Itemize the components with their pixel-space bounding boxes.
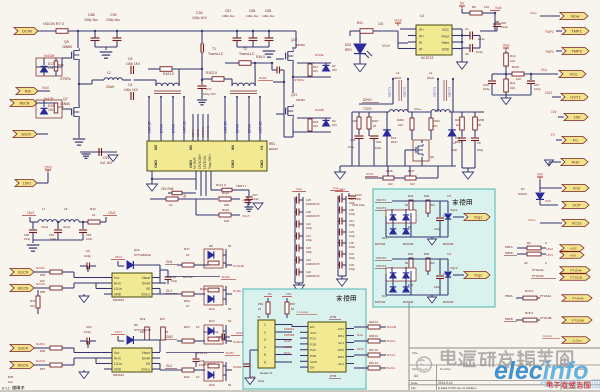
- svg-text:5: 5: [264, 353, 266, 357]
- svg-text:DCIN: DCIN: [22, 29, 32, 34]
- svg-text:10: 10: [196, 375, 200, 379]
- title block border top: [409, 347, 600, 349]
- wire right aux: [452, 111, 484, 113]
- svg-text:D2VO: D2VO: [363, 98, 372, 102]
- svg-text:5n2M: 5n2M: [259, 76, 267, 80]
- wire U1 right: [461, 29, 463, 58]
- svg-text:VOCT4: VOCT4: [376, 264, 386, 268]
- tag Vmr right: [562, 185, 589, 192]
- wire drv1 out: [159, 278, 161, 284]
- svg-text:VOoT: VOoT: [242, 214, 250, 218]
- svg-text:VQc2: VQc2: [450, 266, 458, 270]
- power arrow: [108, 155, 118, 162]
- wire aux rail: [351, 112, 353, 117]
- diode package DQ2: [386, 268, 416, 281]
- svg-text:VOCT2: VOCT2: [376, 256, 386, 260]
- svg-text:VCC: VCC: [442, 28, 450, 32]
- svg-text:R37: R37: [160, 317, 166, 321]
- svg-text:D20: D20: [134, 248, 140, 252]
- svg-text:D24: D24: [209, 383, 215, 387]
- svg-text:TMP3: TMP3: [571, 49, 582, 54]
- svg-text:R50: R50: [184, 299, 190, 303]
- svg-text:VOCT1: VOCT1: [376, 198, 386, 202]
- svg-text:100p: 100p: [349, 245, 355, 249]
- svg-text:66: 66: [405, 203, 409, 207]
- transformer L4 windings: [437, 78, 439, 103]
- svg-text:Header 6: Header 6: [260, 371, 273, 375]
- ground rectifier: [428, 297, 437, 303]
- svg-text:C30: C30: [349, 208, 354, 212]
- svg-text:C85: C85: [265, 9, 271, 13]
- svg-text:100p 1KV: 100p 1KV: [192, 16, 208, 20]
- LED D34 RED: [359, 33, 361, 43]
- inductor coil L3 bottom: [389, 110, 408, 112]
- svg-text:C30: C30: [350, 138, 356, 142]
- svg-text:PH2: PH2: [572, 160, 581, 165]
- svg-text:RbCN: RbCN: [20, 102, 30, 106]
- svg-text:BAT546: BAT546: [375, 300, 386, 304]
- tag PT3G4A: [560, 267, 590, 274]
- svg-text:BAT546: BAT546: [403, 242, 414, 246]
- svg-text:R20: R20: [455, 118, 461, 122]
- svg-text:102: 102: [484, 5, 489, 9]
- power Vout mid: [503, 47, 509, 49]
- svg-text:20uH: 20uH: [394, 76, 401, 80]
- svg-text:R307: R307: [372, 119, 379, 123]
- svg-text:R2: R2: [527, 241, 531, 245]
- svg-text:5V: 5V: [268, 292, 272, 296]
- power 15V2: [45, 169, 51, 171]
- svg-text:102: 102: [388, 182, 393, 186]
- Elecinfo chinese red text: [547, 382, 552, 388]
- resistor R42 10: [182, 368, 194, 372]
- svg-text:C4: C4: [128, 83, 132, 87]
- svg-text:15V1: 15V1: [115, 330, 122, 334]
- svg-text:100: 100: [224, 219, 229, 223]
- svg-text:J1: J1: [257, 315, 261, 319]
- svg-text:PT3G4A: PT3G4A: [570, 269, 582, 273]
- svg-text:Sc1CN: Sc1CN: [18, 271, 29, 275]
- svg-text:18N50: 18N50: [296, 98, 305, 102]
- svg-text:DrvLo: DrvLo: [141, 293, 150, 297]
- tag Sc2CN: [10, 345, 34, 352]
- svg-text:5n1DN: 5n1DN: [36, 266, 45, 270]
- svg-text:VQc1: VQc1: [450, 208, 458, 212]
- svg-text:104p: 104p: [483, 87, 490, 91]
- svg-text:R40: R40: [424, 194, 430, 198]
- tag VCo: [559, 71, 586, 78]
- transistor Q6: [413, 140, 429, 161]
- svg-text:C94: C94: [86, 325, 92, 329]
- svg-text:5n2G4B: 5n2G4B: [233, 340, 244, 344]
- svg-text:C1: C1: [465, 27, 469, 31]
- capacitor C38: [427, 213, 429, 217]
- label VQc1: [447, 201, 449, 213]
- svg-text:U1: U1: [420, 14, 424, 18]
- svg-text:R102 0: R102 0: [206, 71, 217, 75]
- svg-text:102p: 102p: [434, 285, 441, 289]
- diode D8 package: [204, 249, 223, 268]
- svg-text:100p: 100p: [349, 201, 355, 205]
- wire switch node: [283, 82, 285, 137]
- tag Rsb: [16, 88, 38, 95]
- svg-text:C22: C22: [306, 270, 311, 274]
- svg-text:C88: C88: [88, 13, 95, 17]
- svg-text:5V: 5V: [460, 2, 465, 6]
- ground J1: [250, 349, 258, 351]
- svg-text:C34: C34: [196, 11, 203, 15]
- diode D4 15V: [323, 120, 330, 126]
- svg-text:R63: R63: [258, 302, 264, 306]
- svg-text:R309: R309: [397, 118, 404, 122]
- wire drv1 inputs: [73, 272, 75, 278]
- svg-text:2n2 1KV: 2n2 1KV: [100, 161, 113, 165]
- svg-text:66: 66: [405, 261, 409, 265]
- ground: [501, 98, 511, 105]
- svg-text:C53: C53: [250, 375, 256, 379]
- tag Sc1CN: [10, 269, 34, 276]
- svg-text:C33: C33: [349, 263, 354, 267]
- tag PH2: [545, 160, 554, 166]
- svg-text:LLCen: LLCen: [543, 334, 552, 338]
- svg-text:GL2: GL2: [338, 362, 344, 366]
- svg-text:C32: C32: [376, 140, 382, 144]
- svg-text:C12: C12: [306, 234, 311, 238]
- svg-text:Vlow: Vlow: [571, 14, 580, 19]
- wire: [480, 30, 497, 32]
- svg-text:102: 102: [410, 182, 415, 186]
- capacitor C80 104p: [32, 222, 34, 229]
- svg-text:10: 10: [186, 304, 190, 308]
- svg-text:T2VO: T2VO: [363, 107, 372, 111]
- svg-text:P2A: P2A: [310, 348, 317, 352]
- tag Rb1CN: [10, 285, 34, 292]
- diode D23 package: [204, 325, 223, 344]
- svg-text:15V R46: 15V R46: [161, 187, 174, 191]
- diode D24 package: [204, 362, 223, 381]
- svg-text:IP-: IP-: [419, 48, 423, 52]
- svg-text:R97 10: R97 10: [369, 348, 378, 352]
- capacitor C8 100p: [474, 130, 476, 137]
- svg-text:R50: R50: [424, 252, 430, 256]
- inductor coil L4 bottom: [431, 110, 450, 112]
- svg-text:47uH: 47uH: [63, 225, 70, 229]
- svg-text:R81 10: R81 10: [369, 361, 378, 365]
- svg-text:Vmr: Vmr: [333, 186, 339, 190]
- svg-text:BAT546: BAT546: [375, 242, 386, 246]
- svg-text:R20B: R20B: [477, 118, 484, 122]
- svg-text:DTB: DTB: [330, 315, 336, 319]
- svg-text:104p: 104p: [349, 212, 355, 216]
- svg-text:R56: R56: [40, 290, 46, 294]
- capacitor stack 2: [337, 196, 339, 276]
- svg-text:104p: 104p: [84, 330, 91, 334]
- wire rectifier top: [392, 258, 448, 260]
- svg-text:LCC 1B: LCC 1B: [148, 121, 152, 133]
- svg-text:C14: C14: [349, 219, 354, 223]
- power arrow D34: [354, 64, 366, 72]
- svg-text:C32: C32: [349, 241, 354, 245]
- svg-text:GH1: GH1: [166, 260, 173, 264]
- svg-text:C86: C86: [249, 9, 255, 13]
- unused region box 1: [373, 189, 495, 307]
- resistor R117 102: [409, 166, 411, 176]
- svg-text:RB1: RB1: [269, 142, 275, 146]
- svg-text:M4: M4: [231, 145, 235, 150]
- svg-text:5n10L: 5n10L: [233, 289, 242, 293]
- wire C34 branch: [201, 62, 203, 85]
- wire: [462, 167, 475, 169]
- transformer T2 secondary pins: [224, 96, 226, 98]
- svg-text:VC1s: VC1s: [572, 221, 582, 226]
- svg-text:104p: 104p: [24, 237, 31, 241]
- svg-text:5n2M: 5n2M: [226, 351, 234, 355]
- svg-text:5n2GN: 5n2GN: [36, 359, 45, 363]
- capacitor C83 104p: [82, 222, 84, 229]
- svg-text:10: 10: [456, 123, 460, 127]
- svg-text:102: 102: [510, 59, 515, 63]
- diode D22 package: [204, 286, 223, 305]
- svg-text:R24: R24: [184, 325, 190, 329]
- svg-text:VOCT3: VOCT3: [376, 206, 386, 210]
- svg-text:Tsap DNH: Tsap DNH: [208, 154, 212, 169]
- svg-text:VOCT1: VOCT1: [388, 87, 392, 97]
- svg-text:100p 1KV: 100p 1KV: [124, 88, 139, 92]
- wire filter ground: [33, 239, 83, 241]
- svg-text:PT3G4A: PT3G4A: [532, 268, 544, 272]
- svg-text:PT3A4A: PT3A4A: [572, 297, 583, 301]
- svg-text:HI-in: HI-in: [114, 357, 121, 361]
- wires under IC: [195, 171, 197, 190]
- wire: [492, 94, 531, 96]
- capacitor stack 1: [294, 197, 296, 283]
- svg-text:18N50: 18N50: [296, 43, 305, 47]
- svg-text:M5TB: M5TB: [284, 345, 292, 349]
- svg-text:R10 0: R10 0: [525, 289, 533, 293]
- title block border vertical: [408, 302, 410, 392]
- svg-text:100p: 100p: [477, 148, 484, 152]
- svg-text:226p: 226p: [355, 197, 362, 201]
- svg-text:DrvHi: DrvHi: [142, 357, 150, 361]
- tag LLCen: [562, 337, 590, 344]
- resistor R7: [56, 29, 68, 34]
- diode D16 R517: [383, 130, 391, 136]
- svg-text:102p: 102p: [348, 145, 355, 149]
- svg-text:Vmr: Vmr: [573, 186, 581, 191]
- label unused 2: [337, 295, 342, 301]
- svg-text:VCu+: VCu+: [414, 107, 422, 111]
- capacitor C7 120p: [461, 130, 463, 137]
- svg-text:15V1: 15V1: [545, 91, 553, 95]
- svg-text:VOCT2: VOCT2: [403, 87, 407, 97]
- svg-text:202: 202: [430, 261, 435, 265]
- svg-text:R118: R118: [386, 169, 393, 173]
- svg-text:C26: C26: [306, 210, 311, 214]
- wire: [95, 46, 117, 48]
- svg-text:R38: R38: [58, 105, 64, 109]
- svg-text:VCg2: VCg2: [474, 274, 482, 278]
- svg-text:Rsb: Rsb: [25, 90, 31, 94]
- svg-text:LCC 2D: LCC 2D: [224, 121, 228, 133]
- svg-text:B 4.2: B 4.2: [2, 387, 10, 391]
- capacitor C85b 104p: [160, 269, 168, 271]
- capacitor C81 104p: [57, 222, 59, 229]
- svg-text:PT3A4A: PT3A4A: [540, 294, 551, 298]
- svg-text:15V1: 15V1: [27, 211, 35, 215]
- resistor R303 20: [357, 117, 361, 129]
- ground drv2: [83, 370, 85, 372]
- transformer T2 core: [230, 90, 257, 92]
- snubber capacitor: [276, 67, 278, 74]
- svg-text:15V2: 15V2: [357, 347, 364, 351]
- svg-text:102: 102: [378, 22, 384, 26]
- svg-text:E:bak2 XTWJ de-Us.SchDoc: E:bak2 XTWJ de-Us.SchDoc: [438, 386, 477, 390]
- svg-text:DH2: DH2: [338, 355, 344, 359]
- svg-text:LO-in: LO-in: [114, 362, 122, 366]
- svg-text:54: 54: [228, 319, 232, 323]
- svg-text:104p: 104p: [501, 25, 508, 29]
- svg-text:5n20E: 5n20E: [315, 53, 324, 57]
- svg-text:H1: H1: [260, 145, 264, 150]
- svg-text:C9: C9: [86, 249, 90, 253]
- svg-text:5n10E: 5n10E: [44, 97, 55, 101]
- svg-text:GH2: GH2: [338, 348, 345, 352]
- svg-text:UVT1: UVT1: [570, 95, 581, 100]
- svg-text:R517: R517: [391, 140, 398, 144]
- svg-text:VIout: VIout: [441, 35, 449, 39]
- svg-text:GL2: GL2: [166, 364, 172, 368]
- svg-text:LCC 1D: LCC 1D: [183, 121, 187, 133]
- wire aux bottom: [352, 165, 456, 167]
- ground C37: [197, 99, 207, 101]
- ground drv1: [83, 294, 85, 296]
- svg-text:10: 10: [186, 253, 190, 257]
- power 5V: [459, 5, 465, 7]
- svg-text:GND: GND: [231, 160, 235, 168]
- svg-text:15V: 15V: [551, 110, 558, 114]
- resistor R112: [166, 197, 178, 201]
- svg-text:R40: R40: [90, 207, 96, 211]
- svg-text:D23: D23: [209, 319, 215, 323]
- svg-text:RED: RED: [345, 48, 352, 52]
- svg-text:GL1: GL1: [166, 289, 172, 293]
- diode package DQ1: [386, 210, 416, 223]
- svg-text:VCg1: VCg1: [474, 216, 482, 220]
- svg-text:R121 0: R121 0: [216, 183, 226, 187]
- diode D17 15V with R33: [36, 58, 62, 76]
- svg-text:SS210: SS210: [518, 192, 527, 196]
- svg-text:PB1A: PB1A: [505, 245, 513, 249]
- ground: [263, 50, 276, 52]
- svg-text:R35: R35: [8, 375, 14, 379]
- svg-text:15V: 15V: [286, 292, 291, 296]
- svg-text:R36: R36: [40, 349, 46, 353]
- svg-text:100p 1kv: 100p 1kv: [246, 14, 259, 18]
- svg-text:R55: R55: [40, 273, 46, 277]
- svg-text:15V2DSL: 15V2DSL: [203, 155, 207, 169]
- svg-text:A5: A5: [524, 261, 528, 265]
- svg-text:100p 1KV: 100p 1KV: [126, 62, 141, 66]
- svg-text:R57: R57: [40, 367, 46, 371]
- svg-text:Date:: Date:: [411, 381, 418, 385]
- power Vout top: [395, 22, 401, 24]
- svg-text:1000/25/7V: 1000/25/7V: [306, 202, 320, 206]
- svg-text:D9: D9: [134, 323, 138, 327]
- svg-text:Number:: Number:: [440, 367, 452, 371]
- svg-text:5n20B: 5n20B: [315, 108, 324, 112]
- svg-text:BAT546: BAT546: [443, 242, 454, 246]
- svg-text:102: 102: [30, 304, 35, 308]
- resistor column right of U5: [354, 326, 368, 328]
- svg-text:Q22: Q22: [291, 38, 297, 42]
- svg-text:D1VO: D1VO: [172, 124, 176, 133]
- svg-text:C87: C87: [225, 9, 231, 13]
- svg-text:C21: C21: [306, 222, 311, 226]
- svg-text:R47: R47: [184, 247, 190, 251]
- svg-text:54: 54: [228, 307, 232, 311]
- svg-text:T1: T1: [212, 47, 216, 51]
- tag PT2G4B: [562, 317, 592, 324]
- transformer T2 primary coil: [232, 83, 255, 86]
- svg-text:L2: L2: [107, 71, 111, 75]
- capacitor C1 104p: [462, 35, 470, 37]
- capacitor C57 104p: [530, 74, 532, 80]
- svg-text:104p: 104p: [86, 237, 93, 241]
- svg-text:D7: D7: [521, 187, 525, 191]
- svg-text:15V: 15V: [573, 115, 580, 120]
- svg-text:TMP1 T: TMP1 T: [236, 184, 247, 188]
- svg-text:GND: GND: [114, 368, 122, 372]
- title block dividers: [436, 365, 438, 392]
- svg-text:STTH3R04A: STTH3R04A: [134, 253, 151, 257]
- svg-text:P1A: P1A: [310, 337, 317, 341]
- unused region box 2: [243, 289, 366, 389]
- svg-text:C6: C6: [465, 52, 469, 56]
- svg-text:120p: 120p: [451, 148, 458, 152]
- wire rectifier mid: [391, 209, 393, 214]
- svg-text:FC: FC: [551, 133, 556, 137]
- svg-text:100p 1kv: 100p 1kv: [84, 18, 98, 22]
- resistor R307 20: [367, 117, 371, 129]
- svg-text:R74: R74: [30, 299, 36, 303]
- wire: [292, 132, 294, 137]
- IC U2 gate driver block: [147, 141, 267, 171]
- svg-text:R101 11: R101 11: [196, 351, 207, 355]
- svg-text:P1B: P1B: [310, 342, 316, 346]
- diode D18 15V with R38: [36, 100, 62, 118]
- svg-text:18N50: 18N50: [62, 45, 72, 49]
- svg-text:VDCIN R7 0: VDCIN R7 0: [43, 22, 64, 26]
- svg-text:100p 1kv: 100p 1kv: [222, 14, 235, 18]
- svg-text:FC: FC: [573, 138, 578, 143]
- svg-text:Vout: Vout: [339, 187, 345, 191]
- svg-text:5n1GN: 5n1GN: [36, 282, 45, 286]
- wire Q22 source row: [297, 62, 331, 64]
- svg-text:PB1B: PB1B: [505, 317, 513, 321]
- wire: [237, 46, 269, 48]
- svg-text:50: 50: [478, 123, 482, 127]
- svg-text:C19: C19: [306, 258, 311, 262]
- transformer T1 core: [154, 90, 181, 92]
- svg-text:Vout: Vout: [394, 19, 401, 23]
- svg-text:200: 200: [224, 203, 229, 207]
- transformer T1 secondary pins: [148, 96, 150, 98]
- svg-text:VS: VS: [146, 287, 150, 291]
- svg-text:104p: 104p: [476, 50, 483, 54]
- svg-text:VCC: VCC: [310, 331, 317, 335]
- svg-text:File:: File:: [411, 386, 417, 390]
- wire rectifier top: [392, 200, 448, 202]
